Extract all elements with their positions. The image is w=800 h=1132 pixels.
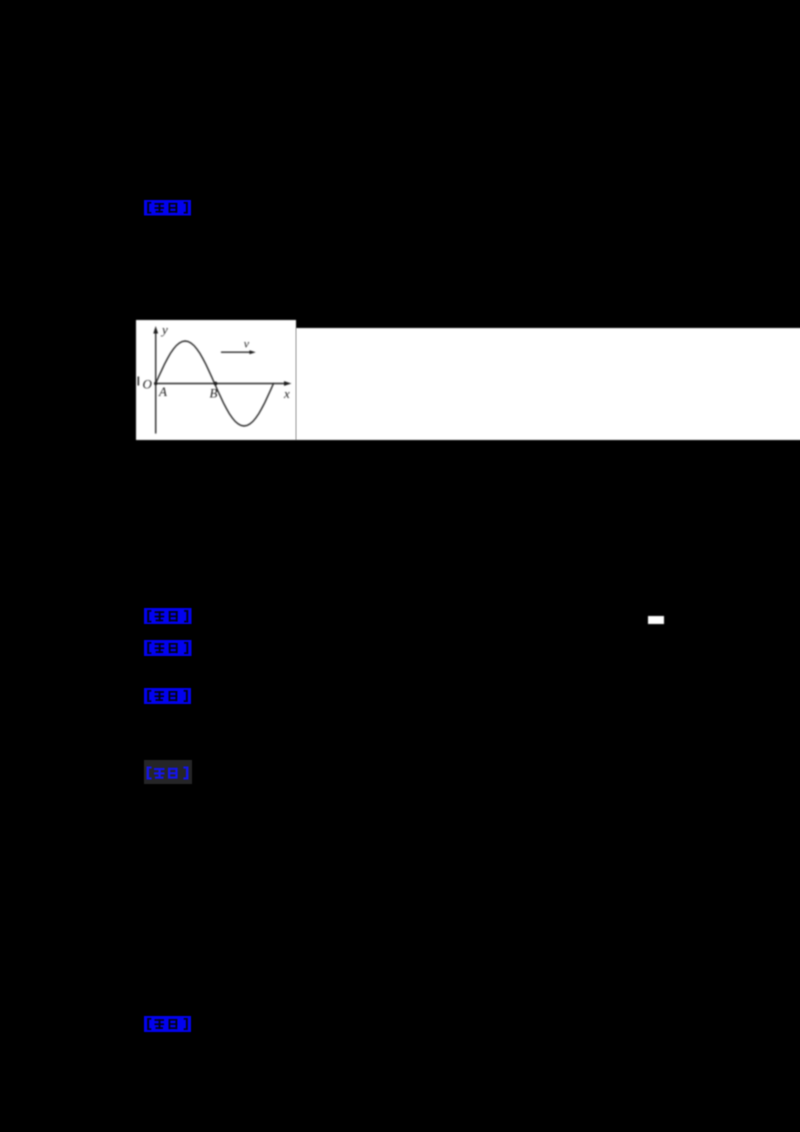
svg-text:x: x: [283, 386, 290, 401]
svg-text:A: A: [158, 384, 167, 399]
svg-text:v: v: [244, 337, 250, 351]
svg-text:O: O: [143, 377, 153, 392]
svg-text:B: B: [210, 386, 218, 401]
svg-text:y: y: [160, 322, 168, 337]
